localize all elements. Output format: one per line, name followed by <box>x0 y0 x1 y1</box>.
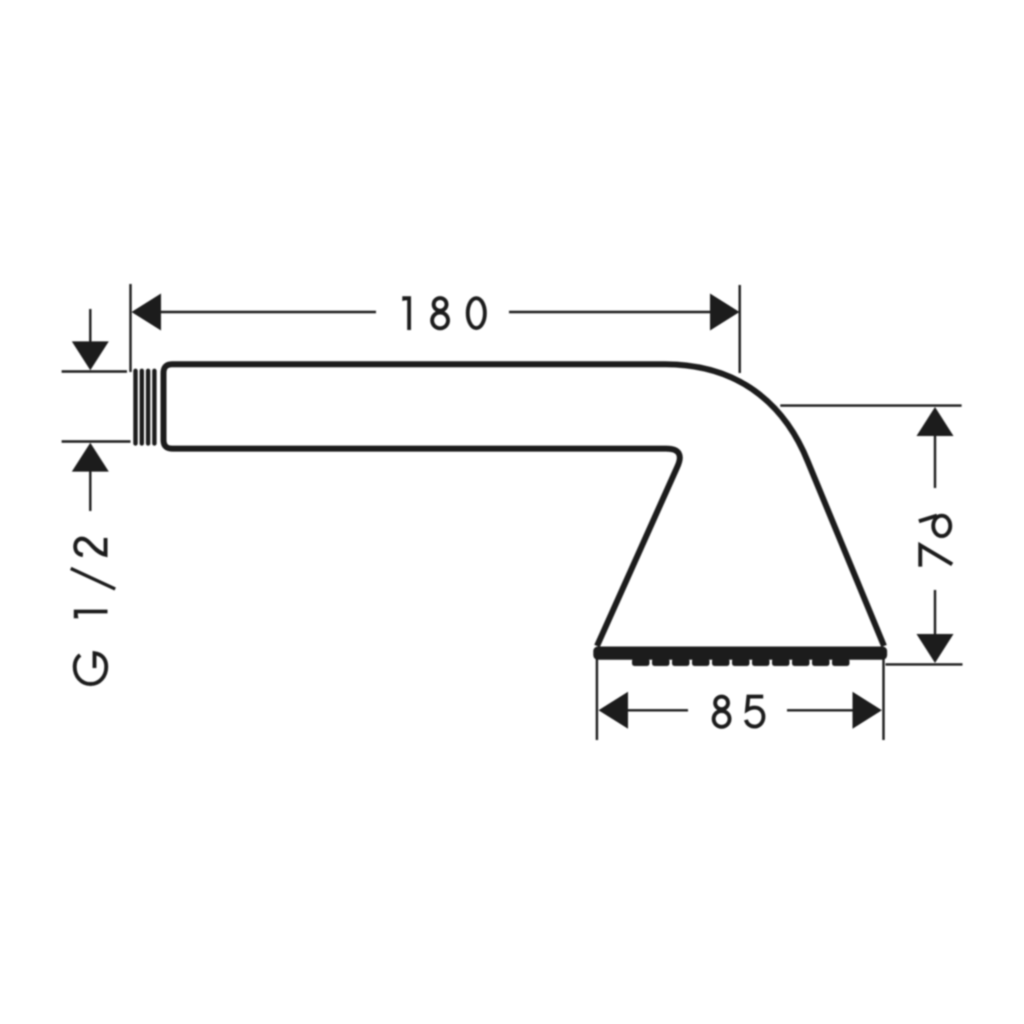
76 up arrowhead <box>917 407 954 436</box>
G1/2 down arrowhead <box>72 341 109 370</box>
spray nozzles <box>632 659 850 667</box>
76 dimension line lower segment <box>934 590 936 636</box>
85 extension line left <box>596 657 598 740</box>
180 right arrowhead <box>710 294 740 331</box>
76 extension line bottom <box>886 663 963 665</box>
thread bottom extension line <box>62 440 131 442</box>
G1/2 leader line lower <box>89 471 91 511</box>
G1/2 up arrowhead <box>72 443 109 472</box>
85 dimension line right segment <box>787 709 854 711</box>
spray face bar <box>593 647 887 660</box>
180 dimension line right segment <box>509 311 737 313</box>
label 180 <box>402 296 485 330</box>
label 85 <box>714 697 764 727</box>
thread top extension line <box>62 370 127 372</box>
180 left arrowhead <box>132 294 162 331</box>
85 right arrowhead <box>853 692 882 729</box>
85 dimension line left segment <box>627 709 688 711</box>
180 extension line right <box>739 285 741 373</box>
85 left arrowhead <box>599 692 629 729</box>
76 extension line top <box>780 404 961 406</box>
180 dimension line left segment <box>134 311 376 313</box>
G1/2 leader line upper <box>89 309 91 342</box>
thread G1/2 <box>136 371 155 444</box>
85 extension line right <box>882 657 884 740</box>
76 dimension line upper segment <box>934 436 936 488</box>
label G 1/2 <box>71 538 116 684</box>
76 down arrowhead <box>917 634 954 663</box>
shower outline (handle + head) <box>164 364 885 646</box>
180 extension line left <box>129 284 131 372</box>
label 76 <box>919 516 952 567</box>
